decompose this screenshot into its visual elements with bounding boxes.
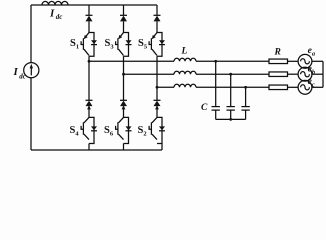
svg-text:a: a	[312, 51, 316, 58]
diode (antiparallel, Q1)	[91, 40, 97, 44]
node phase tap leg 1	[88, 60, 91, 63]
wire top rail	[31, 4, 157, 6]
diode (antiparallel, Q3)	[126, 40, 132, 44]
IGBT Q6	[116, 105, 126, 139]
wire resistor to source a	[288, 60, 299, 62]
node cap tap phase a	[214, 60, 217, 63]
switch cell Q1 branch loop	[89, 33, 94, 57]
diode (antiparallel, Q2)	[159, 126, 165, 130]
wire phase c to load	[196, 86, 269, 88]
svg-text:S2: S2	[138, 125, 147, 138]
wire capacitor star bus	[216, 118, 246, 120]
svg-text:I: I	[49, 8, 55, 20]
wire leg 3 top	[156, 5, 158, 33]
diode (antiparallel, Q6)	[126, 126, 132, 130]
wire resistor to source c	[288, 86, 299, 88]
resistor R phase b	[269, 72, 288, 77]
switch cell Q4 branch loop	[89, 117, 94, 143]
capacitor C1	[212, 61, 220, 119]
node cap tap phase c	[244, 86, 247, 89]
svg-text:b: b	[312, 69, 316, 76]
ac source e_b	[298, 67, 312, 81]
resistor R phase a	[269, 59, 288, 64]
diode (antiparallel, Q4)	[91, 126, 97, 130]
inductor L phase c	[174, 84, 196, 87]
wire leg 3 cell to bottom rail	[161, 144, 163, 151]
wire phase a to filter	[89, 60, 174, 62]
wire phase b to load	[196, 73, 269, 75]
svg-text:C: C	[201, 103, 208, 113]
wire neutral bus right	[322, 61, 324, 87]
inductor L phase a	[174, 58, 196, 61]
ac source e_c	[298, 80, 312, 94]
wire leg 1 to bottom rail	[88, 144, 90, 151]
wire source a to neutral bus	[312, 60, 323, 62]
IGBT Q1	[81, 33, 89, 56]
diode (antiparallel, Q5)	[159, 40, 165, 44]
switch cell Q5 branch loop	[157, 33, 162, 57]
IGBT Q5	[149, 33, 157, 56]
IGBT Q4	[81, 105, 91, 139]
svg-text:c: c	[312, 82, 315, 89]
wire phase a to load	[196, 60, 269, 62]
wire resistor to source b	[288, 73, 299, 75]
diode D2 (series, bottom)	[154, 100, 161, 106]
diode D3 (series, top)	[120, 15, 127, 21]
wire leg 1 middle	[88, 56, 90, 117]
capacitor C2	[227, 74, 235, 119]
node phase tap leg 2	[122, 73, 125, 76]
wire phase b to filter	[124, 73, 175, 75]
wire bottom rail	[31, 149, 162, 151]
svg-text:I: I	[13, 66, 19, 78]
ac source e_a	[298, 54, 312, 68]
inductor L phase b	[174, 71, 196, 74]
wire leg 2 middle	[123, 56, 125, 117]
inductor Ldc	[42, 1, 68, 5]
current source Idc	[24, 63, 39, 78]
switch cell Q6 branch loop	[124, 117, 129, 143]
IGBT Q2	[149, 105, 159, 139]
wire source b to neutral bus	[312, 73, 323, 75]
svg-text:S1: S1	[70, 38, 79, 51]
wire leg 1 top	[88, 5, 90, 33]
capacitor C3	[241, 87, 249, 119]
wire source c to neutral bus	[312, 86, 323, 88]
svg-text:R: R	[274, 48, 281, 58]
diode D6 (series, bottom)	[120, 100, 127, 106]
svg-text:S6: S6	[104, 125, 114, 138]
svg-text:dc: dc	[56, 13, 63, 21]
node cap bus junction	[229, 118, 232, 121]
switch cell Q2 branch loop	[157, 117, 162, 143]
svg-text:S3: S3	[105, 38, 115, 51]
node phase tap leg 3	[156, 86, 159, 89]
wire left (dc link)	[30, 5, 32, 150]
svg-text:L: L	[181, 47, 188, 57]
switch cell Q3 branch loop	[124, 33, 129, 57]
node cap tap phase b	[229, 73, 232, 76]
IGBT Q3	[116, 33, 124, 56]
svg-text:S4: S4	[70, 125, 80, 138]
wire leg 3 middle	[156, 56, 158, 117]
diode D1 (series, top)	[86, 15, 93, 21]
svg-text:dc: dc	[19, 73, 26, 81]
svg-text:S5: S5	[138, 38, 148, 51]
wire phase c to filter	[157, 86, 174, 88]
wire leg 2 to bottom rail	[123, 144, 125, 151]
diode D5 (series, top)	[154, 15, 161, 21]
wire leg 2 top	[123, 5, 125, 33]
resistor R phase c	[269, 85, 288, 90]
diode D4 (series, bottom)	[86, 100, 93, 106]
